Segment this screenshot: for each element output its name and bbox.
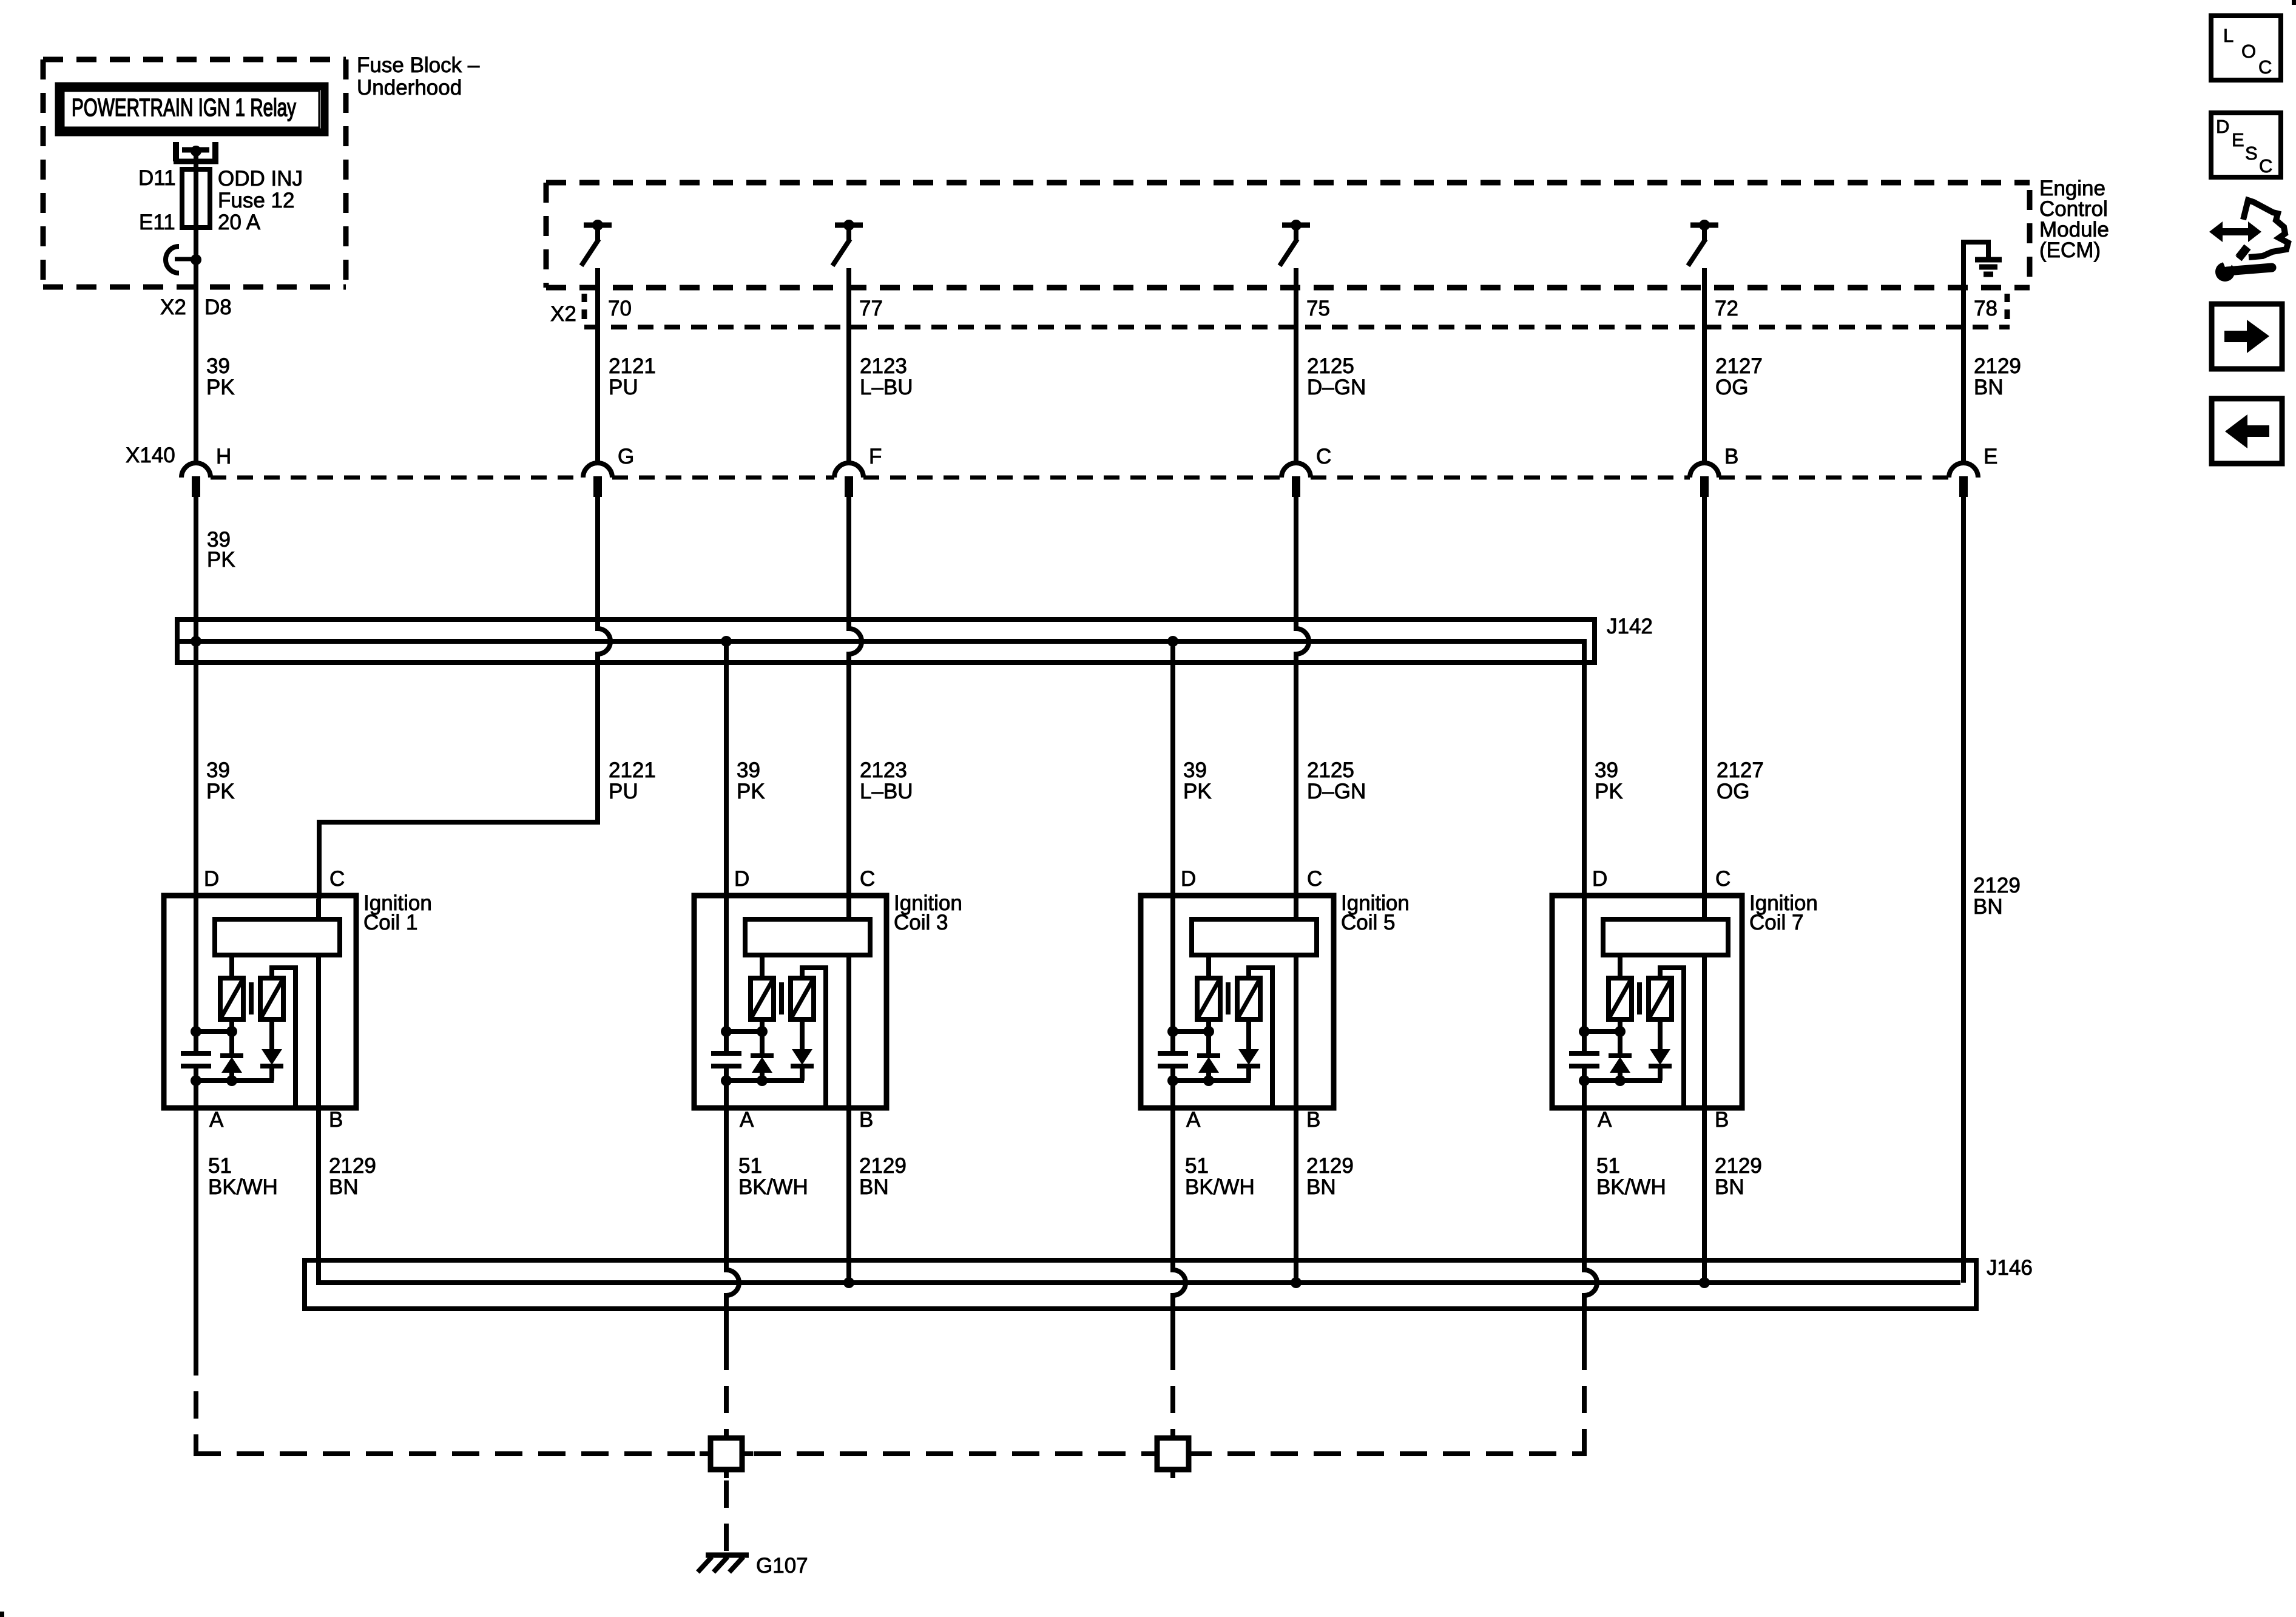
- wire 39 PK J142 to coil3 D: [724, 641, 729, 899]
- svg-text:X2: X2: [550, 302, 576, 326]
- svg-text:C: C: [1715, 867, 1730, 891]
- X2 bracket mark left: [582, 294, 587, 319]
- ground splice dashed line: [194, 1451, 1587, 1456]
- svg-text:C: C: [329, 867, 345, 891]
- svg-text:ODD INJ: ODD INJ: [218, 167, 303, 191]
- coil 5 secondary winding: [1237, 978, 1260, 1019]
- svg-text:51: 51: [1185, 1154, 1209, 1178]
- svg-text:B: B: [1724, 445, 1738, 468]
- svg-text:2129: 2129: [859, 1154, 907, 1178]
- svg-text:70: 70: [608, 297, 632, 320]
- coil 5 secondary output to tower: [1249, 968, 1272, 1106]
- svg-text:BN: BN: [1974, 376, 2004, 399]
- svg-text:2129: 2129: [1306, 1154, 1354, 1178]
- coil 3 primary winding: [751, 978, 774, 1019]
- svg-text:BN: BN: [1306, 1175, 1336, 1199]
- coil 3 zener diode: [751, 1031, 774, 1081]
- svg-text:PU: PU: [609, 376, 638, 399]
- junction dot J146-coil7B: [1699, 1277, 1710, 1288]
- coil 1 node primary-low: [191, 1019, 237, 1037]
- svg-text:L: L: [2223, 25, 2234, 46]
- label 2125 D-GN (coil5 branch): [1307, 758, 1366, 803]
- svg-text:2127: 2127: [1717, 758, 1764, 782]
- junction dot J142-W3: [721, 636, 732, 647]
- label 39 PK (below X140): [207, 528, 235, 572]
- svg-text:A: A: [209, 1108, 224, 1132]
- svg-text:F: F: [869, 445, 882, 468]
- svg-text:78: 78: [1974, 297, 1997, 320]
- coil 3 secondary diode: [791, 1019, 814, 1081]
- svg-text:D: D: [1181, 867, 1196, 891]
- svg-text:G: G: [618, 445, 634, 468]
- coil 1 zener diode: [220, 1031, 243, 1081]
- coil 5 core: [1226, 982, 1231, 1014]
- svg-text:BK/WH: BK/WH: [1185, 1175, 1255, 1199]
- label Ignition Coil 5: [1341, 891, 1410, 934]
- splice bus J142: [177, 619, 1595, 663]
- svg-text:J142: J142: [1607, 615, 1653, 638]
- relay contact terminal: [174, 142, 218, 161]
- wire dashed to G107: [724, 1480, 729, 1551]
- label 39 PK (coil7 branch): [1595, 758, 1623, 803]
- connector X140 pin E: [1949, 463, 1978, 497]
- svg-text:Coil 7: Coil 7: [1749, 911, 1803, 934]
- wire coil5 B to J146: [1294, 1108, 1298, 1283]
- driver switch ECM pin 72: [1688, 220, 1718, 288]
- X140 connector line: [211, 476, 1949, 480]
- svg-text:51: 51: [738, 1154, 762, 1178]
- label 2123 L-BU (top): [860, 354, 913, 399]
- label 2127 OG (coil7 branch): [1717, 758, 1764, 803]
- label 2127 OG (top): [1715, 354, 1763, 399]
- svg-text:(ECM): (ECM): [2039, 238, 2101, 262]
- wire H to J142: [194, 497, 198, 641]
- svg-text:OG: OG: [1717, 780, 1749, 803]
- svg-text:20 A: 20 A: [218, 211, 261, 234]
- ignition coil 3: [694, 896, 886, 1108]
- svg-text:39: 39: [206, 354, 230, 378]
- svg-text:BN: BN: [329, 1175, 359, 1199]
- coil 5 primary winding: [1197, 978, 1220, 1019]
- svg-text:D–GN: D–GN: [1307, 780, 1366, 803]
- label 2129 BN coil 1: [329, 1154, 376, 1199]
- svg-text:D–GN: D–GN: [1307, 376, 1366, 399]
- coil 3 capacitor: [711, 1031, 741, 1081]
- svg-text:PK: PK: [207, 548, 235, 572]
- svg-text:E11: E11: [139, 211, 175, 234]
- svg-text:X140: X140: [126, 444, 175, 467]
- coil 5 secondary diode: [1237, 1019, 1260, 1081]
- wire 39 PK J142 to coil1 D: [194, 641, 198, 899]
- svg-text:2123: 2123: [860, 354, 907, 378]
- coil 5 node primary-low: [1167, 1019, 1214, 1037]
- wire coil7 B to J146: [1702, 1108, 1707, 1283]
- junction dot J142-W5: [1167, 636, 1178, 647]
- svg-text:PK: PK: [1183, 780, 1212, 803]
- wire 2127 OG pin72 down to coil7 C: [1702, 497, 1707, 899]
- coil 1 secondary diode: [260, 1019, 283, 1081]
- svg-text:B: B: [1306, 1108, 1320, 1132]
- svg-text:Coil 1: Coil 1: [363, 911, 417, 934]
- svg-text:E: E: [2232, 129, 2244, 150]
- wire coil3 A 51 BK/WH down with hop over J146: [724, 1108, 729, 1270]
- svg-text:D8: D8: [204, 295, 232, 319]
- wire 39 PK J142 to coil7 D: [1572, 641, 1584, 899]
- svg-text:2123: 2123: [860, 758, 907, 782]
- label Ignition Coil 1: [363, 891, 432, 934]
- wire coil1 A 51 BK/WH down: [194, 1108, 198, 1376]
- connector X140 pin B: [1690, 463, 1719, 497]
- splice junction square S2: [1146, 1430, 1200, 1478]
- svg-text:39: 39: [206, 758, 230, 782]
- label 51 BK/WH coil 3: [738, 1154, 808, 1199]
- junction dot J142-W1: [191, 636, 201, 647]
- coil 1 core: [249, 982, 254, 1014]
- svg-text:BN: BN: [1973, 895, 2003, 919]
- svg-text:A: A: [1598, 1108, 1612, 1132]
- svg-text:A: A: [740, 1108, 754, 1132]
- coil 1 capacitor: [181, 1031, 211, 1081]
- splice junction square S1: [700, 1430, 753, 1478]
- icon arrow left box: [2212, 399, 2282, 464]
- X2 connector dotted line: [584, 325, 2010, 329]
- svg-text:A: A: [1186, 1108, 1201, 1132]
- splice bus J146: [305, 1260, 1976, 1309]
- svg-text:39: 39: [737, 758, 760, 782]
- svg-text:2129: 2129: [1715, 1154, 1762, 1178]
- icon DESC box: [2211, 113, 2281, 177]
- coil 1 primary winding: [220, 978, 243, 1019]
- wire coil1 B to J146: [319, 1108, 1960, 1283]
- svg-text:PU: PU: [609, 780, 638, 803]
- svg-text:POWERTRAIN IGN 1 Relay: POWERTRAIN IGN 1 Relay: [72, 93, 296, 121]
- svg-text:D: D: [1592, 867, 1607, 891]
- svg-text:PK: PK: [1595, 780, 1623, 803]
- X2 bracket mark right: [2005, 294, 2010, 319]
- ground G107: [698, 1555, 749, 1572]
- coil 7 primary winding: [1609, 978, 1632, 1019]
- svg-text:72: 72: [1715, 297, 1738, 320]
- label 2129 BN coil 5: [1306, 1154, 1354, 1199]
- svg-text:77: 77: [859, 297, 883, 320]
- label Engine Control Module (ECM): [2039, 177, 2109, 262]
- wire pin70 to X140 G: [595, 288, 600, 463]
- wire pin78 to X140 E: [1961, 288, 1966, 463]
- wire 2121 PU pin70 down with hop over J142: [595, 497, 600, 629]
- svg-text:D: D: [204, 867, 219, 891]
- label 51 BK/WH coil 5: [1185, 1154, 1255, 1199]
- wire coil3 A dashed to ground line: [724, 1370, 729, 1438]
- wire pin72 to X140 B: [1702, 288, 1707, 463]
- svg-text:BN: BN: [859, 1175, 889, 1199]
- svg-text:2125: 2125: [1307, 354, 1354, 378]
- svg-text:PK: PK: [737, 780, 765, 803]
- label 2125 D-GN (top): [1307, 354, 1366, 399]
- driver switch ECM pin 77: [832, 220, 863, 288]
- ECM internal ground pin 78: [1963, 242, 2002, 288]
- coil 3 secondary winding: [791, 978, 814, 1019]
- coil 7 bottom rail: [1579, 1075, 1662, 1108]
- svg-text:2127: 2127: [1715, 354, 1763, 378]
- relay K1 POWERTRAIN IGN 1 Relay box: [59, 86, 325, 132]
- coil 5 bottom rail: [1167, 1075, 1251, 1108]
- wire coil3 B to J146: [846, 1108, 851, 1283]
- svg-text:H: H: [216, 445, 231, 468]
- svg-text:BK/WH: BK/WH: [738, 1175, 808, 1199]
- label Ignition Coil 7: [1749, 891, 1818, 934]
- svg-text:75: 75: [1306, 297, 1330, 320]
- wire coil5 A 51 BK/WH down with hop over J146: [1170, 1108, 1175, 1270]
- junction dot J146-coil3B: [843, 1277, 854, 1288]
- svg-text:39: 39: [1595, 758, 1618, 782]
- page mark top-right: [2292, 0, 2296, 5]
- coil 3 node primary-low: [721, 1019, 768, 1037]
- svg-text:C: C: [1316, 445, 1331, 468]
- svg-text:2129: 2129: [329, 1154, 376, 1178]
- coil 7 zener diode: [1609, 1031, 1632, 1081]
- driver switch ECM pin 75: [1280, 220, 1310, 288]
- connector X140 pin C: [1281, 463, 1311, 497]
- svg-text:D11: D11: [138, 166, 176, 190]
- svg-text:Fuse 12: Fuse 12: [218, 189, 294, 212]
- label ODD INJ Fuse 12 20 A: [218, 167, 303, 234]
- svg-text:C: C: [2258, 56, 2272, 78]
- svg-text:C: C: [1307, 867, 1322, 891]
- svg-text:B: B: [1715, 1108, 1729, 1132]
- terminal D8 hook: [166, 246, 201, 273]
- svg-text:51: 51: [1596, 1154, 1620, 1178]
- icon arrow right box: [2212, 304, 2282, 369]
- label 51 BK/WH coil 7: [1596, 1154, 1666, 1199]
- label 39 PK (coil1 branch): [206, 758, 235, 803]
- label 2121 PU (coil1 branch): [609, 758, 656, 803]
- svg-text:J146: J146: [1987, 1256, 2033, 1280]
- label 2129 BN (right mid): [1973, 874, 2021, 919]
- svg-text:PK: PK: [206, 780, 235, 803]
- svg-text:D: D: [2216, 116, 2229, 137]
- svg-text:Underhood: Underhood: [357, 76, 462, 100]
- wire fuse to terminal D8: [194, 228, 198, 260]
- icon wiring repair (arrow connector wrench): [2209, 200, 2288, 282]
- coil 5 zener diode: [1197, 1031, 1220, 1081]
- wire 2129 BN pin78/E down to J146: [1961, 497, 1966, 1283]
- coil 1 secondary winding: [260, 978, 283, 1019]
- label 2129 BN coil 3: [859, 1154, 907, 1199]
- svg-text:G107: G107: [756, 1554, 808, 1578]
- coil 7 secondary winding: [1649, 978, 1672, 1019]
- svg-text:L–BU: L–BU: [860, 780, 913, 803]
- svg-text:BK/WH: BK/WH: [1596, 1175, 1666, 1199]
- coil 7 secondary diode: [1649, 1019, 1672, 1081]
- page mark bottom-left: [0, 1612, 4, 1617]
- svg-text:OG: OG: [1715, 376, 1748, 399]
- svg-text:O: O: [2241, 41, 2256, 62]
- label 2123 L-BU (coil3 branch): [860, 758, 913, 803]
- svg-text:BK/WH: BK/WH: [208, 1175, 278, 1199]
- ECM dashed box: [546, 183, 2030, 288]
- connector X140 pin G: [583, 463, 612, 497]
- coil 3 bottom rail: [721, 1075, 804, 1108]
- svg-text:2121: 2121: [609, 354, 656, 378]
- label 51 BK/WH coil 1: [208, 1154, 278, 1199]
- label 39 PK (coil5 branch): [1183, 758, 1212, 803]
- wire 2121 PU jog to coil1 C: [319, 822, 598, 899]
- driver switch ECM pin 70: [581, 220, 612, 288]
- svg-text:2129: 2129: [1974, 354, 2021, 378]
- svg-text:B: B: [859, 1108, 873, 1132]
- svg-text:2125: 2125: [1307, 758, 1354, 782]
- label Ignition Coil 3: [894, 891, 962, 934]
- ignition coil 7: [1552, 896, 1742, 1108]
- svg-text:X2: X2: [160, 295, 186, 319]
- wire pin75 to X140 C: [1294, 288, 1298, 463]
- coil 7 core: [1637, 982, 1642, 1014]
- wire coil1 A dashed to ground line: [194, 1376, 198, 1451]
- coil 7 secondary output to tower: [1660, 968, 1684, 1106]
- wire coil5 A dashed to ground line: [1170, 1370, 1175, 1438]
- svg-text:39: 39: [1183, 758, 1207, 782]
- label 2129 BN (top): [1974, 354, 2021, 399]
- label 39 PK (top): [206, 354, 235, 399]
- svg-text:S: S: [2245, 143, 2258, 164]
- svg-text:2121: 2121: [609, 758, 656, 782]
- label 2129 BN coil 7: [1715, 1154, 1762, 1199]
- svg-text:PK: PK: [206, 376, 235, 399]
- svg-text:51: 51: [208, 1154, 232, 1178]
- label 2121 PU (top): [609, 354, 656, 399]
- svg-text:D: D: [734, 867, 749, 891]
- wire 2125 D-GN pin75 down with hop over J142: [1294, 497, 1298, 629]
- wire coil7 A dashed to ground line: [1582, 1370, 1587, 1451]
- coil 5 capacitor: [1158, 1031, 1188, 1081]
- icon LOC box: [2211, 16, 2281, 80]
- connector X140 pin F: [834, 463, 863, 497]
- svg-text:BN: BN: [1715, 1175, 1744, 1199]
- svg-text:Coil 3: Coil 3: [894, 911, 948, 934]
- coil 3 core: [779, 982, 784, 1014]
- fuse F12 ODD INJ 20A: [182, 169, 210, 228]
- wire coil7 A 51 BK/WH down with hop over J146: [1582, 1108, 1587, 1270]
- wire pin77 to X140 F: [846, 288, 851, 463]
- svg-text:B: B: [329, 1108, 343, 1132]
- svg-text:E: E: [1984, 445, 1997, 468]
- svg-text:C: C: [2259, 155, 2272, 177]
- svg-text:2129: 2129: [1973, 874, 2021, 897]
- label 39 PK (coil3 branch): [737, 758, 765, 803]
- wire 39 PK J142 to coil5 D: [1170, 641, 1175, 899]
- ignition coil 5: [1141, 896, 1334, 1108]
- coil 1 bottom rail: [191, 1075, 274, 1108]
- svg-text:Fuse Block –: Fuse Block –: [357, 53, 480, 77]
- label Fuse Block - Underhood: [357, 53, 480, 100]
- wire 2123 L-BU pin77 down with hop over J142: [846, 497, 851, 629]
- svg-text:C: C: [860, 867, 875, 891]
- svg-text:L–BU: L–BU: [860, 376, 913, 399]
- connector X140 pin H: [181, 463, 211, 497]
- fuse block underhood dashed box: [43, 59, 346, 287]
- ignition coil 1: [164, 896, 356, 1108]
- coil 7 node primary-low: [1579, 1019, 1626, 1037]
- wire D8 to X140 H: [194, 260, 198, 463]
- junction dot J146-coil5B: [1291, 1277, 1302, 1288]
- svg-text:Coil 5: Coil 5: [1341, 911, 1395, 934]
- coil 1 secondary output to tower: [272, 968, 295, 1106]
- wire relay to fuse: [194, 154, 198, 169]
- coil 7 capacitor: [1569, 1031, 1599, 1081]
- coil 3 secondary output to tower: [802, 968, 826, 1106]
